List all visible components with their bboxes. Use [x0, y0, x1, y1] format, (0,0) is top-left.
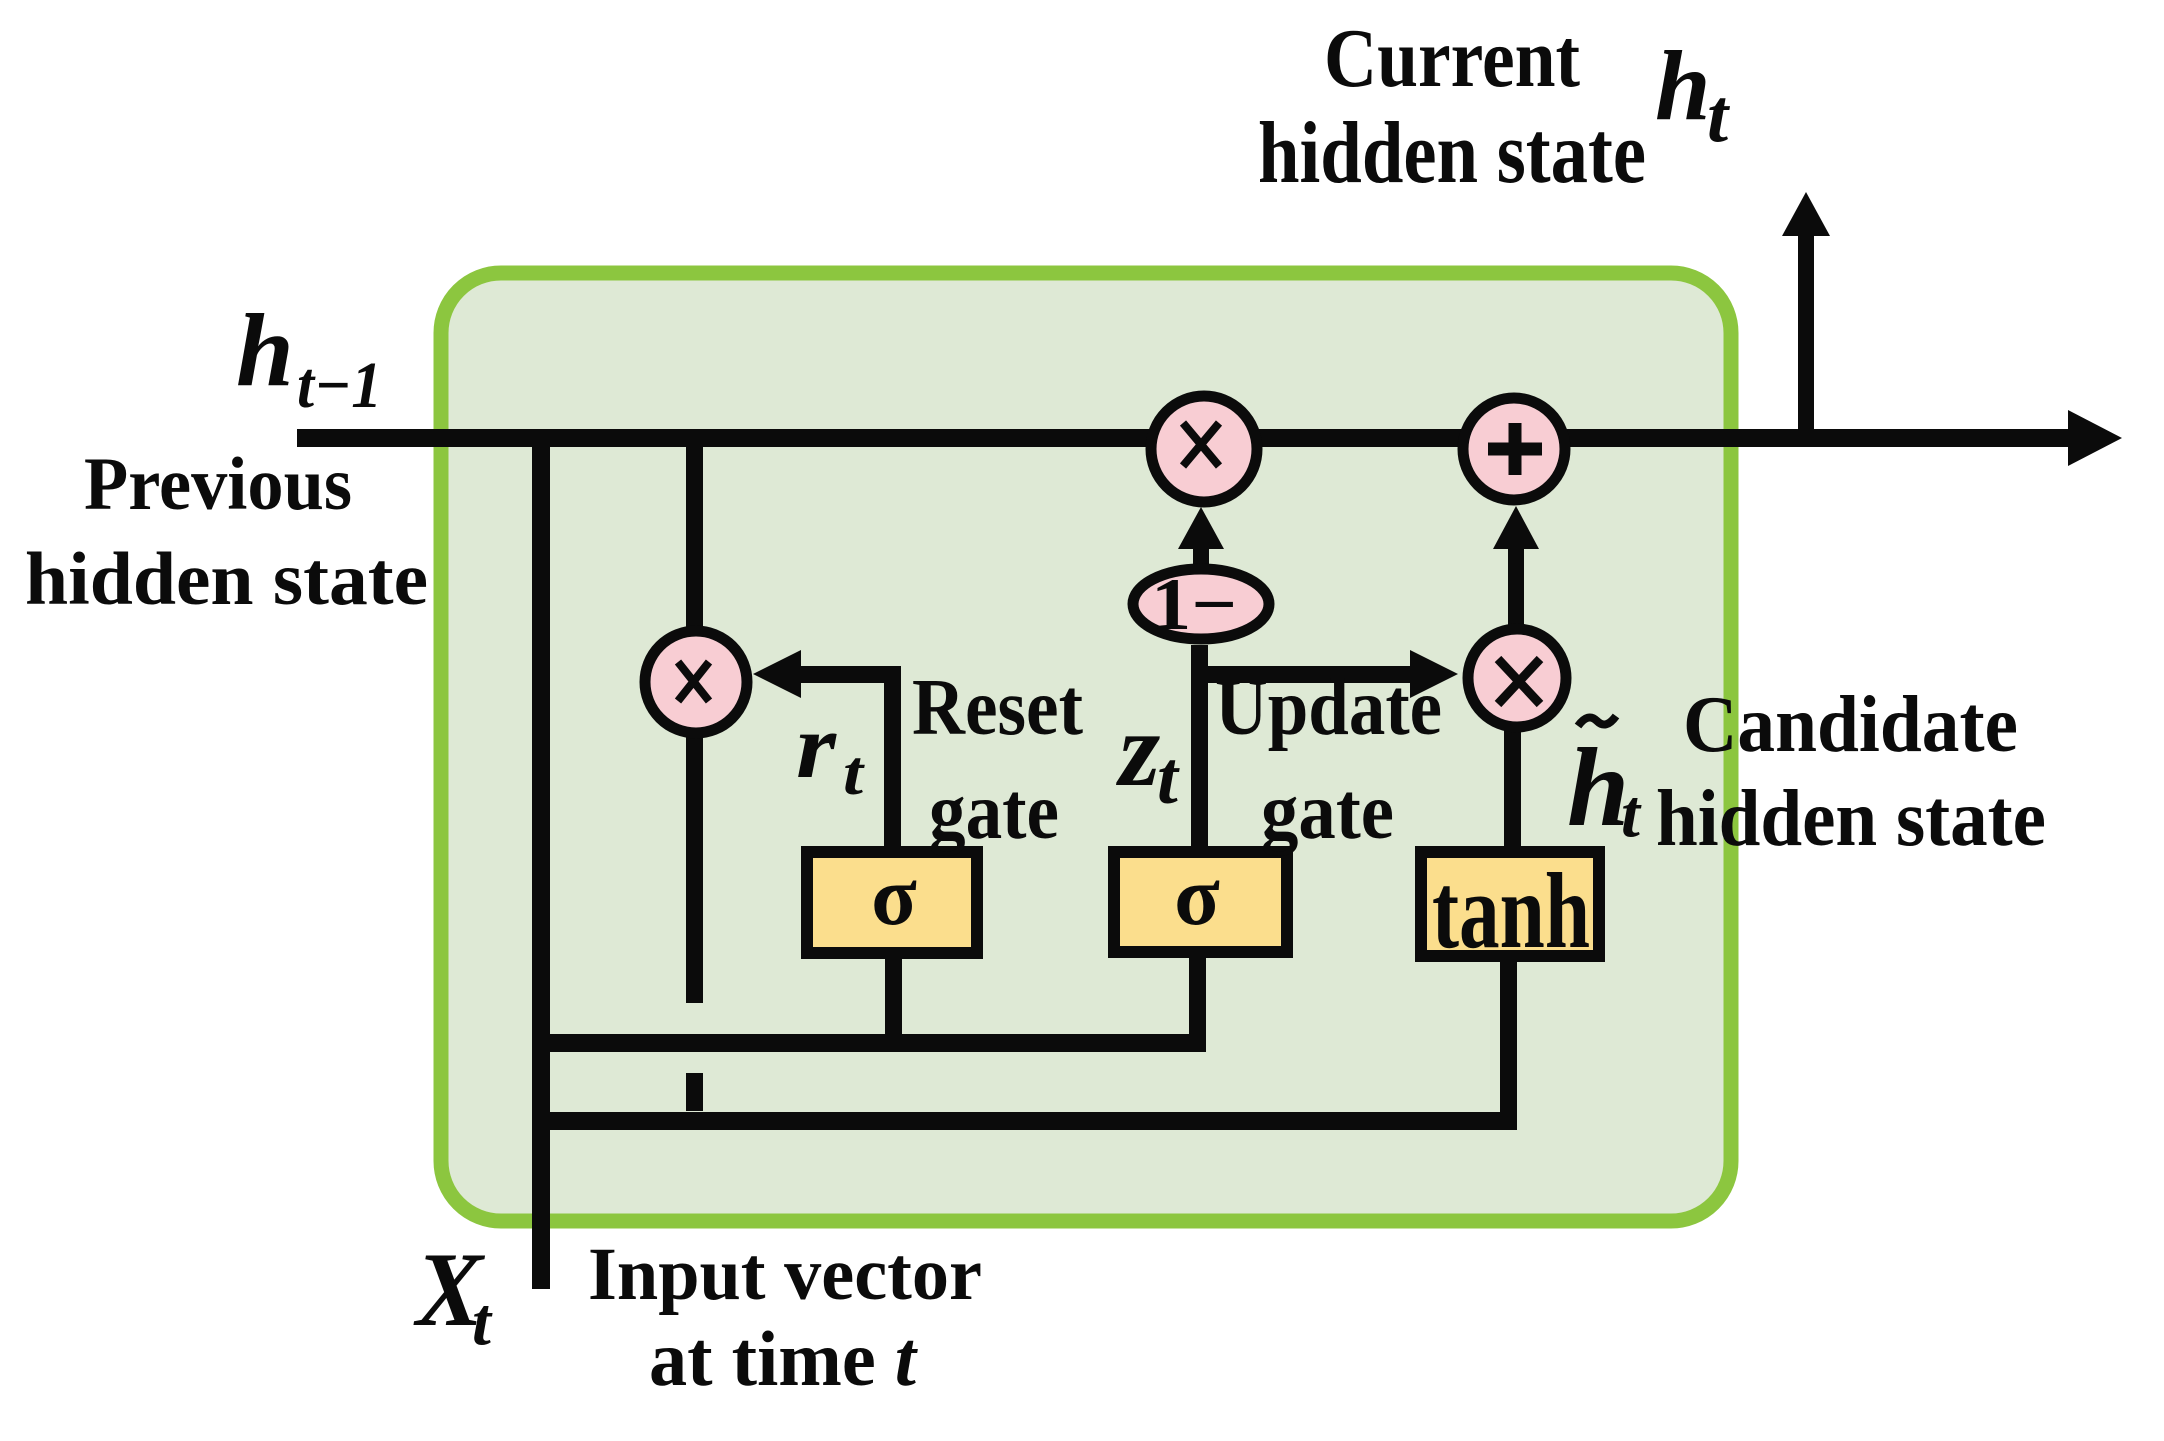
hidden-state multiplier circle (on main line): [1151, 396, 1257, 502]
svg-text:gate: gate: [929, 768, 1059, 856]
svg-text:σ: σ: [871, 850, 917, 943]
svg-text:Current: Current: [1324, 12, 1580, 105]
sigma box 1 (reset gate): [801, 846, 983, 959]
svg-text:hidden state: hidden state: [1656, 775, 2046, 863]
svg-text:h: h: [1655, 30, 1711, 141]
svg-text:t−1: t−1: [297, 349, 382, 422]
svg-text:r: r: [796, 695, 837, 797]
wire: z_t vertical line above sigma2: [1191, 645, 1208, 846]
svg-text:Reset: Reset: [912, 664, 1083, 752]
wire: arrow from 1- ellipse up to multiplier: [1193, 545, 1209, 565]
wire: arrow from candidate multiplier up to adder: [1508, 548, 1524, 630]
svg-text:h: h: [1567, 726, 1629, 850]
svg-text:Input vector: Input vector: [588, 1233, 982, 1316]
wire: crossing dash at x=694: [686, 1073, 703, 1111]
GRU cell body (green rounded box): [441, 273, 1731, 1221]
1- ellipse: [1133, 569, 1269, 639]
candidate multiplier circle: [1468, 629, 1566, 727]
svg-text:t: t: [1707, 74, 1731, 158]
wire: bus line 2 (X_t to tanh): [532, 1112, 1517, 1130]
svg-text:t: t: [472, 1283, 493, 1359]
wire: tanh top connector: [1504, 727, 1521, 846]
svg-text:1−: 1−: [1151, 564, 1237, 646]
tanh box (candidate activation): [1415, 846, 1605, 962]
wire: update branch arrow to candidate multiplier: [1191, 666, 1411, 683]
wire: r_t corner line into reset multiplier: [884, 666, 901, 846]
wire: X_t input vertical line: [532, 438, 550, 1289]
reset multiplier circle: [645, 631, 747, 733]
svg-text:t: t: [1621, 775, 1642, 851]
adder circle (on main line): [1463, 398, 1565, 500]
svg-text:gate: gate: [1261, 768, 1394, 856]
wire: sigma2 bottom connector: [1189, 958, 1206, 1048]
svg-text:z: z: [1116, 691, 1160, 808]
svg-text:Update: Update: [1215, 664, 1442, 752]
svg-text:σ: σ: [1174, 850, 1220, 943]
wire: bus line 1 (X_t to update gate): [532, 1034, 1206, 1052]
svg-text:hidden state: hidden state: [25, 538, 428, 621]
wire: sigma1 bottom connector: [885, 959, 902, 1049]
svg-text:at time t: at time t: [649, 1315, 918, 1402]
wire: main hidden-state line h_{t-1} -> h_t: [297, 429, 2075, 447]
arrowhead right (output h line): [2068, 410, 2122, 466]
svg-text:tanh: tanh: [1432, 852, 1590, 971]
sigma box 2 (update gate): [1108, 846, 1293, 958]
wire: tanh bottom connector: [1500, 962, 1517, 1130]
wire: branch down to reset multiplier: [686, 438, 703, 630]
svg-text:Candidate: Candidate: [1683, 681, 2018, 769]
svg-text:h: h: [236, 293, 294, 408]
wire: below reset multiplier: [686, 735, 703, 1003]
svg-text:t: t: [843, 737, 865, 808]
wire: vertical output arrow to current hidden state: [1798, 232, 1814, 438]
svg-text:t: t: [1157, 737, 1180, 820]
svg-text:Previous: Previous: [84, 443, 352, 526]
svg-text:hidden state: hidden state: [1258, 105, 1646, 202]
